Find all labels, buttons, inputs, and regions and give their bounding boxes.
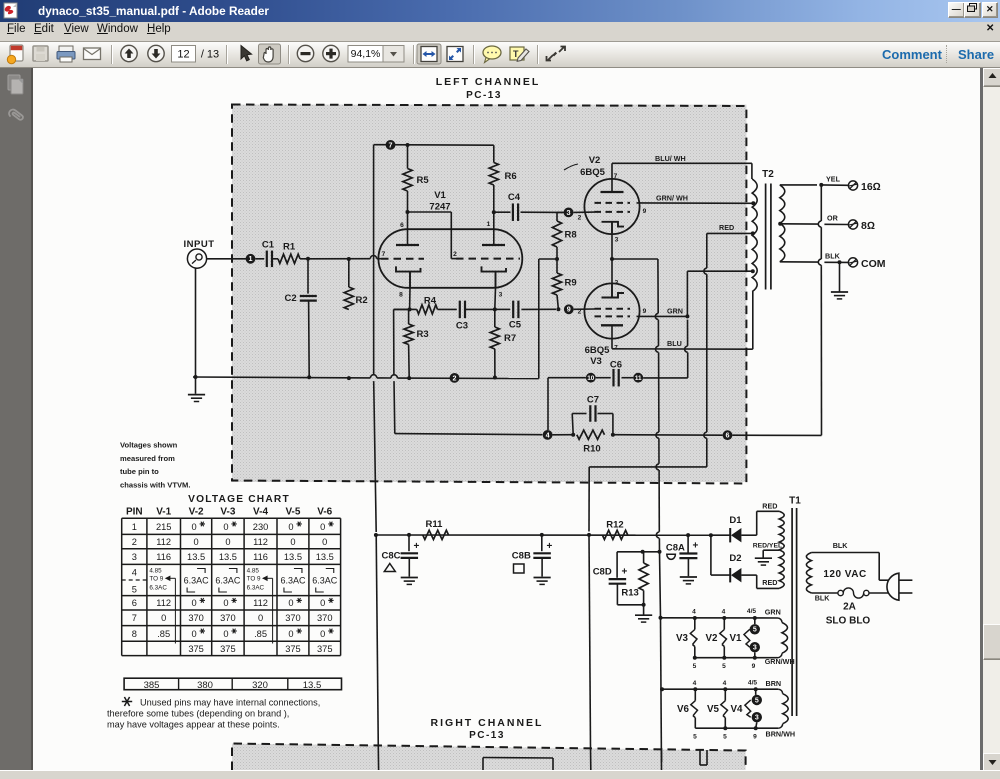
label R4 (424, 296, 437, 307)
svg-text:6.3AC: 6.3AC (280, 576, 306, 586)
svg-text:10: 10 (587, 375, 595, 382)
pages panel icon (8, 75, 20, 90)
node 8 (564, 208, 574, 218)
wire C8D bottom to R13 bottom (617, 604, 643, 606)
V2 cathode (602, 222, 625, 233)
C8B ground (534, 578, 551, 585)
svg-text:R11: R11 (426, 519, 444, 530)
wire GRN V3 screen to T2 lower tap (637, 314, 690, 318)
input jack J1 (187, 249, 206, 268)
svg-text:7: 7 (614, 345, 618, 352)
svg-text:C5: C5 (509, 320, 522, 331)
label V4 heater (731, 704, 744, 715)
heater winding GRN (T1) (778, 618, 788, 658)
svg-text:6.3AC: 6.3AC (149, 585, 167, 592)
svg-text:13.5: 13.5 (187, 552, 205, 562)
svg-text:0: 0 (223, 522, 228, 532)
node 11 (633, 373, 643, 383)
svg-text:6: 6 (400, 222, 404, 229)
resistor R10 (553, 430, 615, 454)
wire junction to V1 grid (hop over feedback line) (308, 256, 381, 259)
capacitor C5 (495, 301, 556, 331)
terminal 8 ohm (848, 220, 875, 232)
wire node1 to C1 (255, 258, 264, 260)
label V2 6BQ5 (580, 155, 606, 178)
heater pin labels 4 4 4/5 GRN (692, 608, 781, 617)
V2 pin numbers 7 9 3 2 (578, 173, 647, 244)
svg-text:7: 7 (132, 613, 137, 623)
svg-text:C8D: C8D (593, 567, 612, 578)
input ground (188, 268, 205, 401)
svg-text:+: + (693, 541, 699, 552)
svg-text:/ 13: / 13 (201, 49, 219, 61)
label T1 (789, 496, 801, 507)
svg-text:0: 0 (288, 629, 293, 639)
zoom value box (348, 46, 383, 63)
svg-text:Voltages shown: Voltages shown (120, 441, 178, 450)
svg-text:0: 0 (258, 613, 263, 623)
svg-text:0: 0 (288, 522, 293, 532)
svg-text:4/5: 4/5 (748, 680, 757, 687)
svg-text:12: 12 (177, 49, 189, 61)
wire OR to 8ohm (780, 221, 848, 227)
svg-text:4: 4 (132, 568, 137, 578)
voltage chart title (188, 494, 290, 505)
svg-text:0: 0 (192, 598, 197, 608)
svg-text:0: 0 (192, 522, 197, 532)
resistor R5 (403, 143, 429, 212)
svg-text:4: 4 (693, 680, 697, 687)
svg-text:R13: R13 (621, 588, 638, 599)
svg-text:0: 0 (322, 537, 327, 547)
label BLK (825, 252, 841, 261)
svg-text:C8C: C8C (382, 551, 401, 562)
svg-text:370: 370 (188, 613, 204, 623)
svg-text:5: 5 (722, 663, 726, 670)
terminal COM (848, 258, 885, 270)
svg-text:16Ω: 16Ω (861, 181, 881, 193)
transformer T2 secondary (778, 185, 785, 262)
label V5 heater (707, 704, 720, 715)
svg-text:6.3AC: 6.3AC (215, 576, 241, 586)
svg-text:chassis with VTVM.: chassis with VTVM. (120, 481, 190, 490)
svg-text:V2: V2 (589, 155, 601, 166)
mains bottom wire BLK with fuse F1 (811, 588, 888, 598)
svg-text:Unused pins may have internal: Unused pins may have internal connection… (140, 698, 320, 708)
V3 grids dashed (595, 309, 631, 317)
capacitor C7 with loop (572, 395, 613, 435)
svg-text:BLU: BLU (667, 339, 682, 348)
C8A section symbol half-circle (667, 554, 676, 559)
node 7 (386, 140, 396, 150)
svg-text:V1: V1 (434, 190, 446, 201)
svg-text:5: 5 (132, 585, 137, 595)
svg-text:11: 11 (635, 375, 642, 382)
comment bubble icon (483, 46, 501, 59)
svg-text:BRN/WH: BRN/WH (766, 730, 796, 739)
label 120 VAC (823, 569, 866, 580)
right channel stub wires (378, 748, 707, 770)
wire BLK to COM (780, 259, 848, 265)
resistor R11 (423, 519, 449, 540)
heater feed vertical to BRN row (660, 687, 664, 691)
svg-text:YEL: YEL (826, 175, 841, 184)
junction dot R7 top (493, 307, 497, 311)
svg-text:tube pin to: tube pin to (120, 467, 159, 476)
junction C2 top (306, 257, 310, 261)
mains plug (887, 573, 912, 600)
svg-text:V1: V1 (730, 633, 743, 644)
V1a grid (dashed) (381, 258, 424, 260)
svg-text:0: 0 (161, 613, 166, 623)
heater pin labels 5 5 9 GRN/WH (693, 657, 795, 670)
svg-text:6: 6 (726, 431, 730, 440)
label 6BQ5 V3 (585, 345, 611, 367)
resistor R8 (552, 212, 576, 259)
svg-text:3: 3 (615, 237, 619, 244)
wire node11 to bias line and riser (643, 377, 688, 379)
svg-text:7: 7 (382, 251, 386, 258)
eyelet 5 (GRN) (750, 624, 760, 634)
svg-text:+: + (414, 541, 420, 552)
svg-text:V4: V4 (731, 704, 744, 715)
svg-text:R5: R5 (417, 175, 430, 186)
svg-text:3: 3 (615, 280, 619, 287)
svg-text:0: 0 (320, 629, 325, 639)
page down icon (148, 45, 164, 61)
resistor R2 (344, 257, 367, 310)
transformer voltage strip table (124, 678, 341, 691)
svg-text:6.3AC: 6.3AC (247, 585, 265, 592)
svg-text:116: 116 (156, 552, 171, 562)
svg-text:2: 2 (453, 373, 457, 382)
label V2 heater (706, 633, 719, 644)
capacitor C4 (494, 192, 564, 221)
svg-text:TO 9: TO 9 (149, 576, 163, 583)
svg-text:3: 3 (755, 715, 759, 722)
svg-text:C3: C3 (456, 321, 468, 332)
svg-text:7: 7 (614, 173, 618, 180)
B+ vertical to right channel x589 (589, 535, 591, 748)
svg-text:BLK: BLK (833, 541, 849, 550)
B+ screen feed line node7 vertical (374, 145, 377, 532)
svg-text:8: 8 (399, 292, 403, 299)
voltage chart row 4/5 (132, 568, 338, 644)
svg-text:R8: R8 (565, 230, 577, 241)
node 6 feedback row (613, 267, 822, 436)
print icon (59, 46, 73, 52)
V1 pin numbers 6 7 8 2 1 3 (382, 221, 503, 299)
label GRN (667, 307, 683, 316)
heater BRN/WH row bottom (695, 726, 778, 730)
eyelet 3 (GRN) (750, 642, 760, 652)
wire node10 left down to node 4 (548, 378, 586, 430)
label RED (719, 223, 734, 232)
svg-text:375: 375 (188, 644, 204, 654)
svg-text:V2: V2 (706, 633, 719, 644)
svg-text:D2: D2 (729, 553, 741, 564)
svg-text:T1: T1 (789, 496, 801, 507)
left channel dashed board PC-13 (232, 105, 746, 484)
svg-text:V5: V5 (707, 704, 720, 715)
svg-text:R3: R3 (417, 329, 429, 340)
heater pin labels 4 4 4/5 BRN (693, 679, 781, 688)
wire D1 to T1 HV top RED (757, 511, 780, 535)
wire BLU V3 plate to T2 bottom (612, 292, 753, 350)
svg-text:0: 0 (320, 598, 325, 608)
svg-text:R6: R6 (505, 171, 517, 182)
svg-text:120 VAC: 120 VAC (823, 569, 866, 580)
diode D1 (711, 515, 757, 542)
window title bar (0, 0, 1000, 22)
svg-text:1: 1 (249, 254, 253, 263)
svg-text:9: 9 (753, 734, 757, 741)
resistor R13 (621, 552, 648, 607)
label RED bottom (762, 578, 777, 587)
heater GRN/WH row bottom (693, 656, 778, 660)
resistor R7 (490, 309, 516, 379)
capacitor C3 (456, 301, 495, 332)
svg-text:RED: RED (719, 223, 734, 232)
resistor R1 (272, 242, 308, 264)
svg-text:9: 9 (567, 305, 571, 314)
heater winding BRN row top (662, 687, 778, 691)
svg-text:BLK: BLK (815, 594, 831, 603)
svg-text:V-4: V-4 (253, 507, 268, 518)
svg-text:INPUT: INPUT (184, 239, 215, 250)
svg-text:RIGHT CHANNEL: RIGHT CHANNEL (431, 717, 544, 729)
wire input jack to node 1 (207, 258, 246, 260)
svg-text:13.5: 13.5 (303, 680, 322, 691)
right channel dashed board PC-13 (232, 744, 746, 771)
svg-text:375: 375 (285, 644, 301, 654)
V1b plate (482, 210, 505, 245)
node 1 (246, 254, 256, 264)
diode D2 (711, 535, 757, 582)
wire GRN/WH V2 screen to T2 tap (637, 201, 756, 205)
svg-text:COM: COM (861, 258, 886, 270)
label V1 7247 (429, 190, 450, 213)
label BLK bottom (815, 594, 831, 603)
label RED top (762, 502, 777, 511)
junction R8 R9 (539, 257, 559, 309)
T1 mains primary winding (806, 553, 811, 594)
svg-text:V6: V6 (677, 704, 690, 715)
svg-text:+: + (547, 541, 553, 552)
svg-text:370: 370 (220, 613, 236, 623)
svg-text:BRN: BRN (766, 679, 782, 688)
node 4 (543, 430, 553, 440)
svg-text:0: 0 (288, 598, 293, 608)
svg-text:8: 8 (132, 629, 137, 639)
transformer T2 primary (752, 179, 757, 292)
heater V1 filament to eyelets (744, 618, 755, 647)
pentode V2 envelope (584, 179, 639, 234)
transformer T1 HV winding (779, 511, 784, 588)
svg-text:GRN/ WH: GRN/ WH (656, 194, 688, 203)
svg-text:.85: .85 (254, 629, 267, 639)
svg-text:2: 2 (453, 251, 457, 258)
svg-text:8Ω: 8Ω (861, 220, 875, 232)
vertical scrollbar (983, 68, 1000, 770)
voltage chart header row (126, 507, 333, 518)
svg-text:R4: R4 (424, 296, 437, 307)
svg-text:C1: C1 (262, 240, 275, 251)
svg-text:C7: C7 (587, 395, 599, 406)
svg-text:1: 1 (132, 522, 137, 532)
V2 grid wire from node 8 (573, 211, 594, 213)
email icon (84, 48, 101, 60)
heater V6 filament (691, 689, 698, 728)
svg-text:0: 0 (223, 598, 228, 608)
svg-text:0: 0 (320, 522, 325, 532)
zoom in icon (323, 45, 339, 61)
node 10 (586, 373, 596, 383)
svg-text:may have voltages appear at th: may have voltages appear at these points… (107, 720, 280, 730)
svg-text:112: 112 (156, 598, 171, 608)
svg-text:SLO BLO: SLO BLO (826, 616, 871, 627)
svg-text:3: 3 (753, 645, 757, 652)
highlight icon (510, 47, 524, 60)
V3 cathode (top) (602, 259, 625, 298)
transformer T1 core (792, 508, 797, 716)
select tool icon (241, 46, 252, 61)
svg-text:R1: R1 (283, 242, 296, 253)
svg-text:116: 116 (253, 552, 268, 562)
svg-text:5: 5 (693, 734, 697, 741)
svg-text:BLU/ WH: BLU/ WH (655, 154, 686, 163)
heater V5 filament (721, 689, 728, 728)
svg-text:+: + (622, 567, 628, 578)
label 2A SLO BLO (826, 602, 871, 627)
voltage chart grid (122, 518, 341, 655)
label BLU/WH (655, 154, 686, 163)
C8B section symbol square (514, 564, 525, 573)
resistor R3 (404, 309, 429, 380)
capacitor C2 (285, 259, 317, 377)
svg-text:V3: V3 (590, 356, 602, 367)
heater V3 filament (690, 618, 697, 658)
node 2 (450, 373, 460, 383)
V2 grids dashed (595, 203, 631, 212)
capacitor C8A (666, 535, 699, 576)
svg-text:therefore some tubes (dependin: therefore some tubes (depending on brand… (107, 709, 289, 719)
V1b cathode (482, 266, 507, 309)
V3 plate (601, 325, 623, 349)
svg-text:0: 0 (192, 629, 197, 639)
wire eyelet3 to GRN/WH row (754, 652, 756, 657)
node 9 (564, 304, 574, 314)
svg-text:370: 370 (285, 613, 301, 623)
wire BLU/WH V2 plate to T2 top (612, 163, 752, 179)
svg-text:6: 6 (132, 598, 137, 608)
capacitor C8D (593, 552, 628, 605)
svg-text:V-1: V-1 (156, 507, 171, 518)
svg-text:C8B: C8B (512, 551, 531, 562)
svg-text:7: 7 (389, 140, 393, 149)
svg-text:RED: RED (762, 578, 777, 587)
eyelet 5 (BRN) (752, 695, 762, 705)
page up icon (121, 45, 137, 61)
svg-text:4: 4 (722, 609, 726, 616)
heater pin labels 5 5 9 BRN/WH (693, 730, 795, 741)
svg-text:9: 9 (752, 663, 756, 670)
svg-text:0: 0 (223, 629, 228, 639)
svg-text:LEFT CHANNEL: LEFT CHANNEL (436, 76, 541, 88)
hand tool icon (selected) (259, 44, 281, 64)
svg-text:R2: R2 (356, 295, 368, 306)
svg-text:PC-13: PC-13 (469, 730, 505, 741)
label RIGHT CHANNEL (431, 717, 544, 741)
C8C ground (401, 578, 418, 585)
svg-text:7247: 7247 (429, 202, 450, 213)
svg-text:13.5: 13.5 (219, 552, 237, 562)
capacitor C1 (262, 240, 275, 268)
V1b grid (dashed) (456, 258, 520, 260)
mains top wire BLK (811, 553, 888, 581)
pentode V3 envelope (584, 283, 639, 338)
junction dot R9 bottom (556, 307, 560, 311)
svg-text:13.5: 13.5 (316, 552, 334, 562)
svg-text:112: 112 (253, 598, 268, 608)
dot C2 bottom on bus (307, 375, 311, 379)
capacitor C8C (382, 535, 420, 577)
R13 ground (635, 605, 652, 622)
heater V2 filament (720, 618, 727, 658)
svg-text:9: 9 (643, 308, 647, 315)
svg-text:6BQ5: 6BQ5 (580, 167, 606, 178)
toolbar (0, 42, 1000, 68)
svg-text:4: 4 (546, 430, 550, 439)
label GRN/WH (656, 194, 688, 203)
svg-text:PC-13: PC-13 (466, 90, 502, 101)
svg-text:V-6: V-6 (317, 507, 332, 518)
navigation sidebar (0, 68, 33, 770)
svg-text:230: 230 (253, 522, 269, 532)
svg-text:385: 385 (144, 680, 160, 691)
wire D2 to T1 HV bottom RED (757, 575, 780, 588)
asterisk footnote (107, 697, 320, 730)
svg-text:4.85: 4.85 (149, 568, 162, 575)
svg-text:V-3: V-3 (220, 507, 235, 518)
zoom out icon (297, 45, 313, 61)
svg-text:4/5: 4/5 (747, 608, 756, 615)
speaker common ground (831, 262, 848, 299)
wire eyelet3 to BRN/WH row (756, 722, 757, 728)
terminal 16 ohm (848, 181, 880, 193)
expand icon (547, 47, 566, 61)
svg-text:6.3AC: 6.3AC (312, 576, 338, 586)
svg-text:5: 5 (723, 734, 727, 741)
page number box (172, 46, 196, 63)
svg-text:94,1%: 94,1% (351, 48, 381, 60)
dot R2 bottom on bus (347, 376, 351, 380)
svg-text:375: 375 (220, 644, 236, 654)
status bar (0, 770, 1000, 779)
label RED/YEL (753, 543, 782, 550)
svg-text:RED: RED (762, 502, 777, 511)
svg-text:4: 4 (723, 680, 727, 687)
capacitor C6 (596, 360, 634, 387)
svg-text:2: 2 (578, 215, 582, 222)
eyelet 3 (BRN) (752, 712, 762, 722)
svg-text:R7: R7 (504, 333, 516, 344)
svg-text:370: 370 (317, 613, 333, 623)
svg-text:2: 2 (132, 537, 137, 547)
svg-text:GRN/WH: GRN/WH (765, 657, 795, 666)
fit page icon (447, 47, 463, 62)
svg-text:2: 2 (578, 309, 582, 316)
